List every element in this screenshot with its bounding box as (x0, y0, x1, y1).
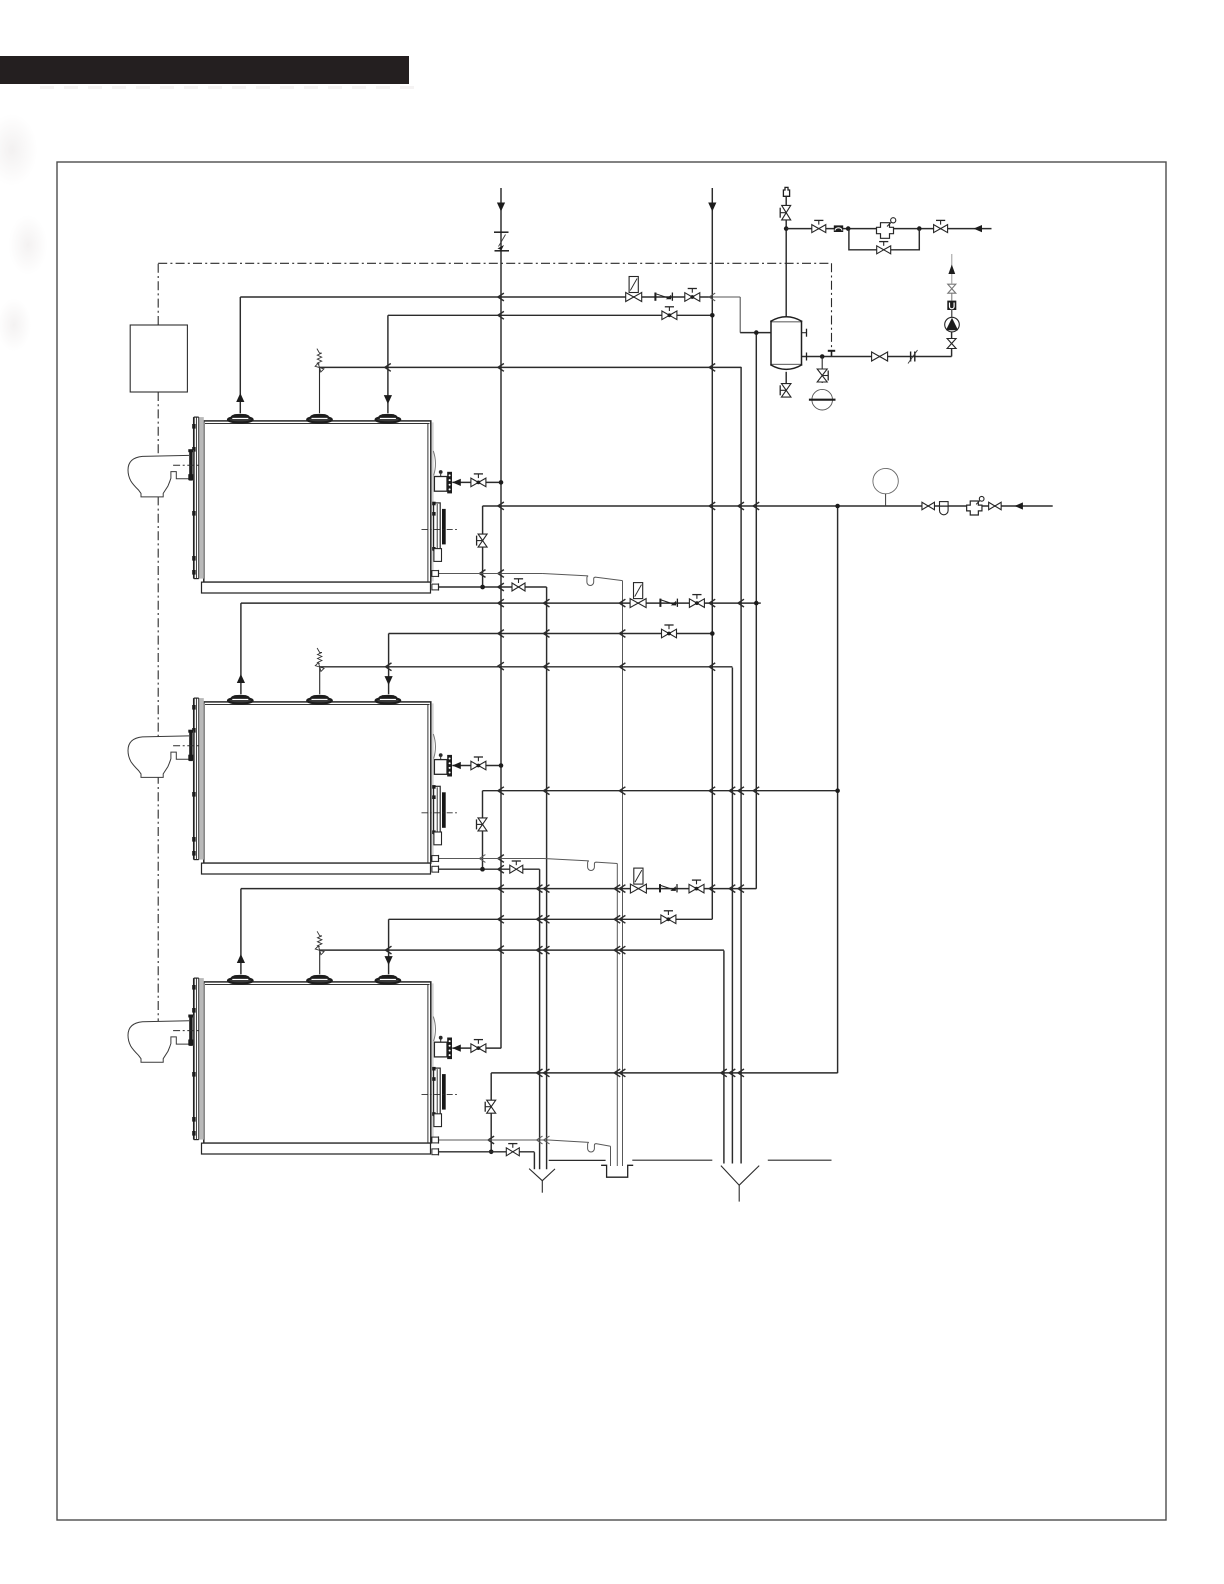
junction boiler 2 return at header (710, 631, 715, 636)
boiler 1 return line (388, 314, 712, 316)
boiler 1 supply line gray continuation (712, 296, 740, 298)
control wire drop to feed line (831, 263, 833, 348)
boiler B3 burner blower (128, 1021, 189, 1062)
makeup water drop pipe (837, 506, 839, 1073)
boiler B1 burner mounting plate (189, 450, 192, 481)
fill check valve (834, 225, 843, 232)
tank lower outlet (802, 356, 952, 358)
boiler B3 skim stub (432, 1137, 439, 1143)
boiler B2 return drop riser (388, 634, 390, 695)
bypass loop (849, 229, 919, 250)
boiler B2 supply riser arrow (237, 674, 245, 683)
gauge branch drop (821, 357, 823, 384)
fill valve 2 (934, 225, 948, 233)
boiler 1 relief discharge drop (740, 367, 742, 1164)
fill shutoff valve (812, 225, 826, 233)
boiler B3 supply outlet box (434, 1042, 447, 1057)
boiler B1 top flange middle (307, 415, 332, 423)
boiler B3 blowdown stub (432, 1149, 439, 1155)
makeup pressure reducing valve (967, 501, 982, 515)
boiler 1 makeup branch drop (482, 506, 484, 587)
boiler 3 blowdown line (433, 1151, 534, 1153)
boiler B3 top flange middle (307, 976, 332, 984)
boiler B3 return connection bracket (434, 1068, 441, 1116)
boiler B1 flue panel arc (433, 451, 435, 476)
boiler 2 skim drain line (433, 858, 544, 860)
pump discharge arrow (951, 254, 953, 284)
junction boiler 3 makeup at blowdown (489, 1150, 494, 1155)
system supply header drop (right) (711, 188, 713, 919)
boiler 2 supply shutoff valve (689, 599, 704, 608)
junction boiler 1 makeup at blowdown (480, 585, 485, 590)
faint scan noise left edge (0, 95, 75, 355)
boiler 2 feed arrow (452, 762, 461, 769)
boiler B3 top flange right (376, 976, 401, 984)
boiler 3 feed shutoff valve (471, 1044, 486, 1053)
boiler 3 makeup branch valve (487, 1100, 496, 1113)
boiler B2 supply outlet box (434, 760, 447, 775)
boiler 3 makeup branch line (491, 1072, 837, 1074)
junction fill line (784, 226, 789, 231)
boiler B2 flue panel arc (433, 734, 435, 759)
boiler B3 lower stub box (434, 1114, 442, 1127)
boiler 2 relief discharge drop (731, 668, 733, 1164)
boiler B3 return centerline (422, 1094, 458, 1096)
boiler B3 top flange left (228, 976, 253, 984)
boiler B1 blowdown stub (432, 584, 439, 590)
boiler 1 feed shutoff valve (471, 478, 486, 487)
makeup strainer (940, 506, 949, 515)
control wire terminal T (828, 350, 835, 352)
boiler 2 return line (389, 633, 713, 635)
boiler B3 return drop riser (388, 919, 390, 974)
junction boiler 2 makeup at blowdown (480, 867, 485, 872)
boiler 2 skim drain drop (616, 864, 618, 1167)
boiler B1 return drop riser (387, 315, 389, 413)
boiler B3 body (204, 982, 431, 1143)
boiler B1 front panel (199, 417, 204, 578)
boiler B3 flue panel arc (433, 1017, 435, 1042)
title bar (black header band) (0, 56, 409, 84)
control wire horizontal run (158, 262, 831, 264)
boiler 2 makeup branch line (483, 790, 838, 792)
boiler B2 relief valve riser (319, 667, 321, 695)
junction boiler 1 feed at header (499, 480, 504, 485)
boiler B2 base (202, 863, 431, 874)
bypass valve (877, 246, 891, 254)
junction bypass left (846, 226, 851, 231)
boiler 1 supply jog to collector (739, 297, 741, 333)
boiler B2 supply outlet flange (447, 755, 452, 777)
boiler B1 supply riser arrow (236, 393, 244, 402)
tank connection line (740, 332, 771, 334)
boiler 3 skim drain drop (610, 1146, 612, 1166)
boiler B2 top flange right (376, 696, 401, 704)
floor line segment 3 (768, 1159, 832, 1161)
boiler 2 makeup branch drop (482, 791, 484, 870)
boiler 3 blowdown drop (533, 1152, 535, 1169)
temperature gauge (812, 389, 833, 410)
pipe break symbol (494, 231, 509, 233)
makeup water main (483, 505, 1053, 507)
boiler B1 return connection bracket (434, 503, 441, 551)
control wire from controller bottom to burners (157, 392, 159, 1021)
boiler B3 burner mounting plate (189, 1015, 192, 1046)
tank drain valve (781, 384, 791, 398)
makeup shutoff valve 2 (989, 502, 1002, 510)
boiler B1 skim stub (432, 571, 439, 577)
pump discharge valve (951, 294, 953, 301)
pump suction valve (947, 339, 956, 349)
boiler 1 return shutoff valve (662, 311, 677, 320)
boiler B2 relief valve spring (317, 648, 322, 664)
boiler B1 return centerline (422, 528, 458, 530)
tank drain pipe (785, 372, 787, 383)
boiler B1 lower stub box (434, 549, 442, 562)
boiler 2 blowdown drop (539, 869, 541, 1169)
boiler 3 check valve (659, 884, 661, 892)
boiler B3 supply riser (240, 889, 242, 975)
boiler B2 blowdown stub (432, 866, 439, 872)
drawing border frame (57, 162, 1166, 1520)
boiler 2 check valve (659, 599, 661, 607)
floor line segment 2 (632, 1159, 712, 1161)
boiler 2 supply balancing valve FI-2 (634, 583, 643, 599)
boiler B2 return connection bracket (434, 786, 441, 834)
boiler 1 relief discharge line (320, 366, 742, 368)
boiler 1 skim drain drop (622, 581, 624, 1166)
fill flow arrow (974, 225, 983, 232)
union (910, 352, 912, 362)
boiler 3 supply line (241, 888, 756, 890)
boiler 2 supply line (241, 602, 756, 604)
junction bypass right (917, 226, 922, 231)
boiler 1 feed line from header (452, 481, 501, 483)
boiler B1 top flange right (376, 415, 401, 423)
drain trough basin (601, 1165, 633, 1177)
boiler 3 return line (389, 918, 713, 920)
boiler B2 front panel (199, 698, 204, 860)
boiler 2 feed line from header (452, 765, 501, 767)
boiler 3 return shutoff valve (661, 915, 676, 924)
feed valve on tank outlet (872, 352, 888, 361)
boiler 3 skim drain line (433, 1139, 549, 1141)
control wire from controller top (157, 263, 159, 325)
boiler 2 blowdown line (433, 868, 540, 870)
flow arrow down on return header (497, 203, 505, 212)
fill pressure reducing valve (877, 223, 894, 239)
junction boiler 2 makeup at drop (835, 788, 840, 793)
boiler 1 blowdown line (433, 586, 547, 588)
boiler B2 return drop arrow (385, 676, 393, 685)
riser to expansion tank (785, 220, 787, 317)
flow arrow down on supply header (708, 203, 716, 212)
boiler B2 top flange middle (307, 696, 332, 704)
boiler 2 makeup branch valve (478, 818, 487, 831)
boiler 1 blowdown drop (546, 587, 548, 1169)
boiler B1 burner control line (173, 464, 199, 466)
pressure gauge (873, 468, 898, 493)
boiler B3 supply riser arrow (237, 954, 245, 963)
floor line segment 1 (549, 1159, 606, 1161)
boiler 3 supply shutoff valve (689, 884, 704, 893)
junction boiler 2 feed at header (499, 763, 504, 768)
boiler 1 supply shutoff valve (685, 293, 700, 302)
junction collector riser / tank (754, 330, 759, 335)
junction boiler 1 return at header (710, 313, 715, 318)
system return header drop (left) (500, 188, 502, 1048)
boiler 1 skim drain line (433, 573, 543, 575)
controller box (130, 325, 187, 392)
makeup flow arrow (1014, 502, 1023, 509)
air vent (783, 187, 789, 196)
boiler 1 feed arrow (452, 479, 461, 486)
boiler 2 relief discharge line (320, 666, 733, 668)
boiler 2 blowdown valve (510, 865, 523, 873)
boiler B2 top flange left (228, 696, 253, 704)
boiler B1 supply riser (239, 297, 241, 413)
boiler 3 relief discharge drop (723, 951, 725, 1164)
boiler 2 return shutoff valve (662, 629, 677, 638)
makeup shutoff valve 1 (922, 502, 935, 510)
boiler B1 relief valve riser (319, 367, 321, 413)
junction boiler 2 blowdown (480, 867, 485, 872)
expansion tank (771, 322, 802, 365)
boiler B2 burner control line (173, 745, 199, 747)
junction makeup drop (835, 504, 840, 509)
boiler 1 supply line (240, 296, 712, 298)
floor drain funnel 1 (529, 1169, 555, 1181)
boiler B1 top flange left (228, 415, 253, 423)
boiler B2 skim stub (432, 856, 439, 862)
pump check valve (951, 310, 953, 317)
boiler B1 base (202, 582, 431, 593)
boiler B1 body (204, 421, 431, 582)
faint artifact row under title bar (40, 86, 420, 89)
floor drain funnel 2 (721, 1166, 759, 1186)
boiler B2 lower stub box (434, 832, 442, 845)
junction gauge branch (820, 354, 825, 359)
tank upper stub (802, 332, 807, 334)
boiler 3 makeup branch drop (490, 1073, 492, 1152)
boiler B1 relief valve spring (317, 349, 322, 365)
boiler 1 supply balancing valve FI-1 (629, 277, 638, 293)
boiler supply collector riser from tank line (755, 333, 757, 889)
boiler B1 return drop arrow (384, 395, 392, 404)
boiler B3 supply outlet flange (447, 1038, 452, 1060)
boiler B1 supply outlet flange (447, 472, 452, 494)
junction boiler 1 blowdown (480, 585, 485, 590)
boiler B3 relief valve spring (317, 931, 322, 947)
boiler B1 burner blower (128, 455, 189, 497)
boiler B2 supply riser (240, 603, 242, 694)
boiler B1 supply outlet box (434, 477, 447, 492)
boiler B3 burner control line (173, 1030, 199, 1032)
boiler 2 feed shutoff valve (471, 761, 486, 770)
boiler 3 feed line from header (452, 1047, 501, 1049)
boiler 3 relief discharge line (320, 949, 724, 951)
boiler B2 burner mounting plate (189, 731, 192, 762)
boiler 3 feed arrow (452, 1045, 461, 1052)
boiler B2 body (204, 702, 431, 863)
boiler 3 supply balancing valve FI-3 (634, 868, 643, 884)
boiler B2 return centerline (422, 812, 458, 814)
junction boiler 2 supply at collector (756, 602, 761, 604)
boiler B3 base (202, 1143, 431, 1154)
boiler 1 blowdown valve (512, 583, 525, 591)
gauge branch valve (817, 369, 827, 382)
boiler 1 check valve (654, 293, 656, 301)
boiler B3 front panel (199, 978, 204, 1140)
air vent isolation valve (785, 196, 787, 205)
fill line to system (786, 228, 991, 230)
riser to condensate pump (951, 348, 953, 356)
boiler 3 blowdown valve (506, 1148, 519, 1156)
boiler 1 makeup branch valve (478, 534, 487, 547)
boiler B3 return drop arrow (385, 956, 393, 965)
boiler B3 relief valve riser (319, 950, 321, 974)
circulator pump (945, 317, 960, 332)
boiler B2 burner blower (128, 736, 189, 778)
